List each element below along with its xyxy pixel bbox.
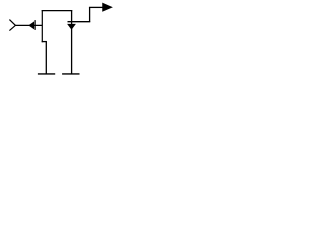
input terminal chevron bbox=[9, 20, 15, 31]
ground bar right bbox=[62, 73, 79, 75]
background bbox=[0, 0, 119, 83]
transistor Q1 gate bar bbox=[34, 20, 36, 30]
transistor Q2 vertical line bbox=[71, 10, 73, 74]
wire: Q1 source jog horizontal bbox=[42, 41, 47, 43]
transistor Q2 arrow (points down) bbox=[68, 24, 75, 29]
wire: Q1 drain to Q2 top bbox=[42, 10, 72, 12]
wire: Q1 source down to ground bbox=[45, 42, 47, 74]
wire: riser up from Q2 gate level bbox=[89, 7, 91, 21]
transistor Q1 channel line bbox=[41, 10, 43, 42]
ground bar left bbox=[38, 73, 55, 75]
transistor Q1 gate arrow (points left) bbox=[29, 22, 34, 29]
wire: input to Q1 gate junction bbox=[15, 24, 42, 26]
output arrowhead bbox=[103, 3, 112, 11]
transistor Q2 gate bar merging into wire toward output riser bbox=[68, 21, 91, 23]
wire: to output arrow bbox=[89, 6, 103, 8]
